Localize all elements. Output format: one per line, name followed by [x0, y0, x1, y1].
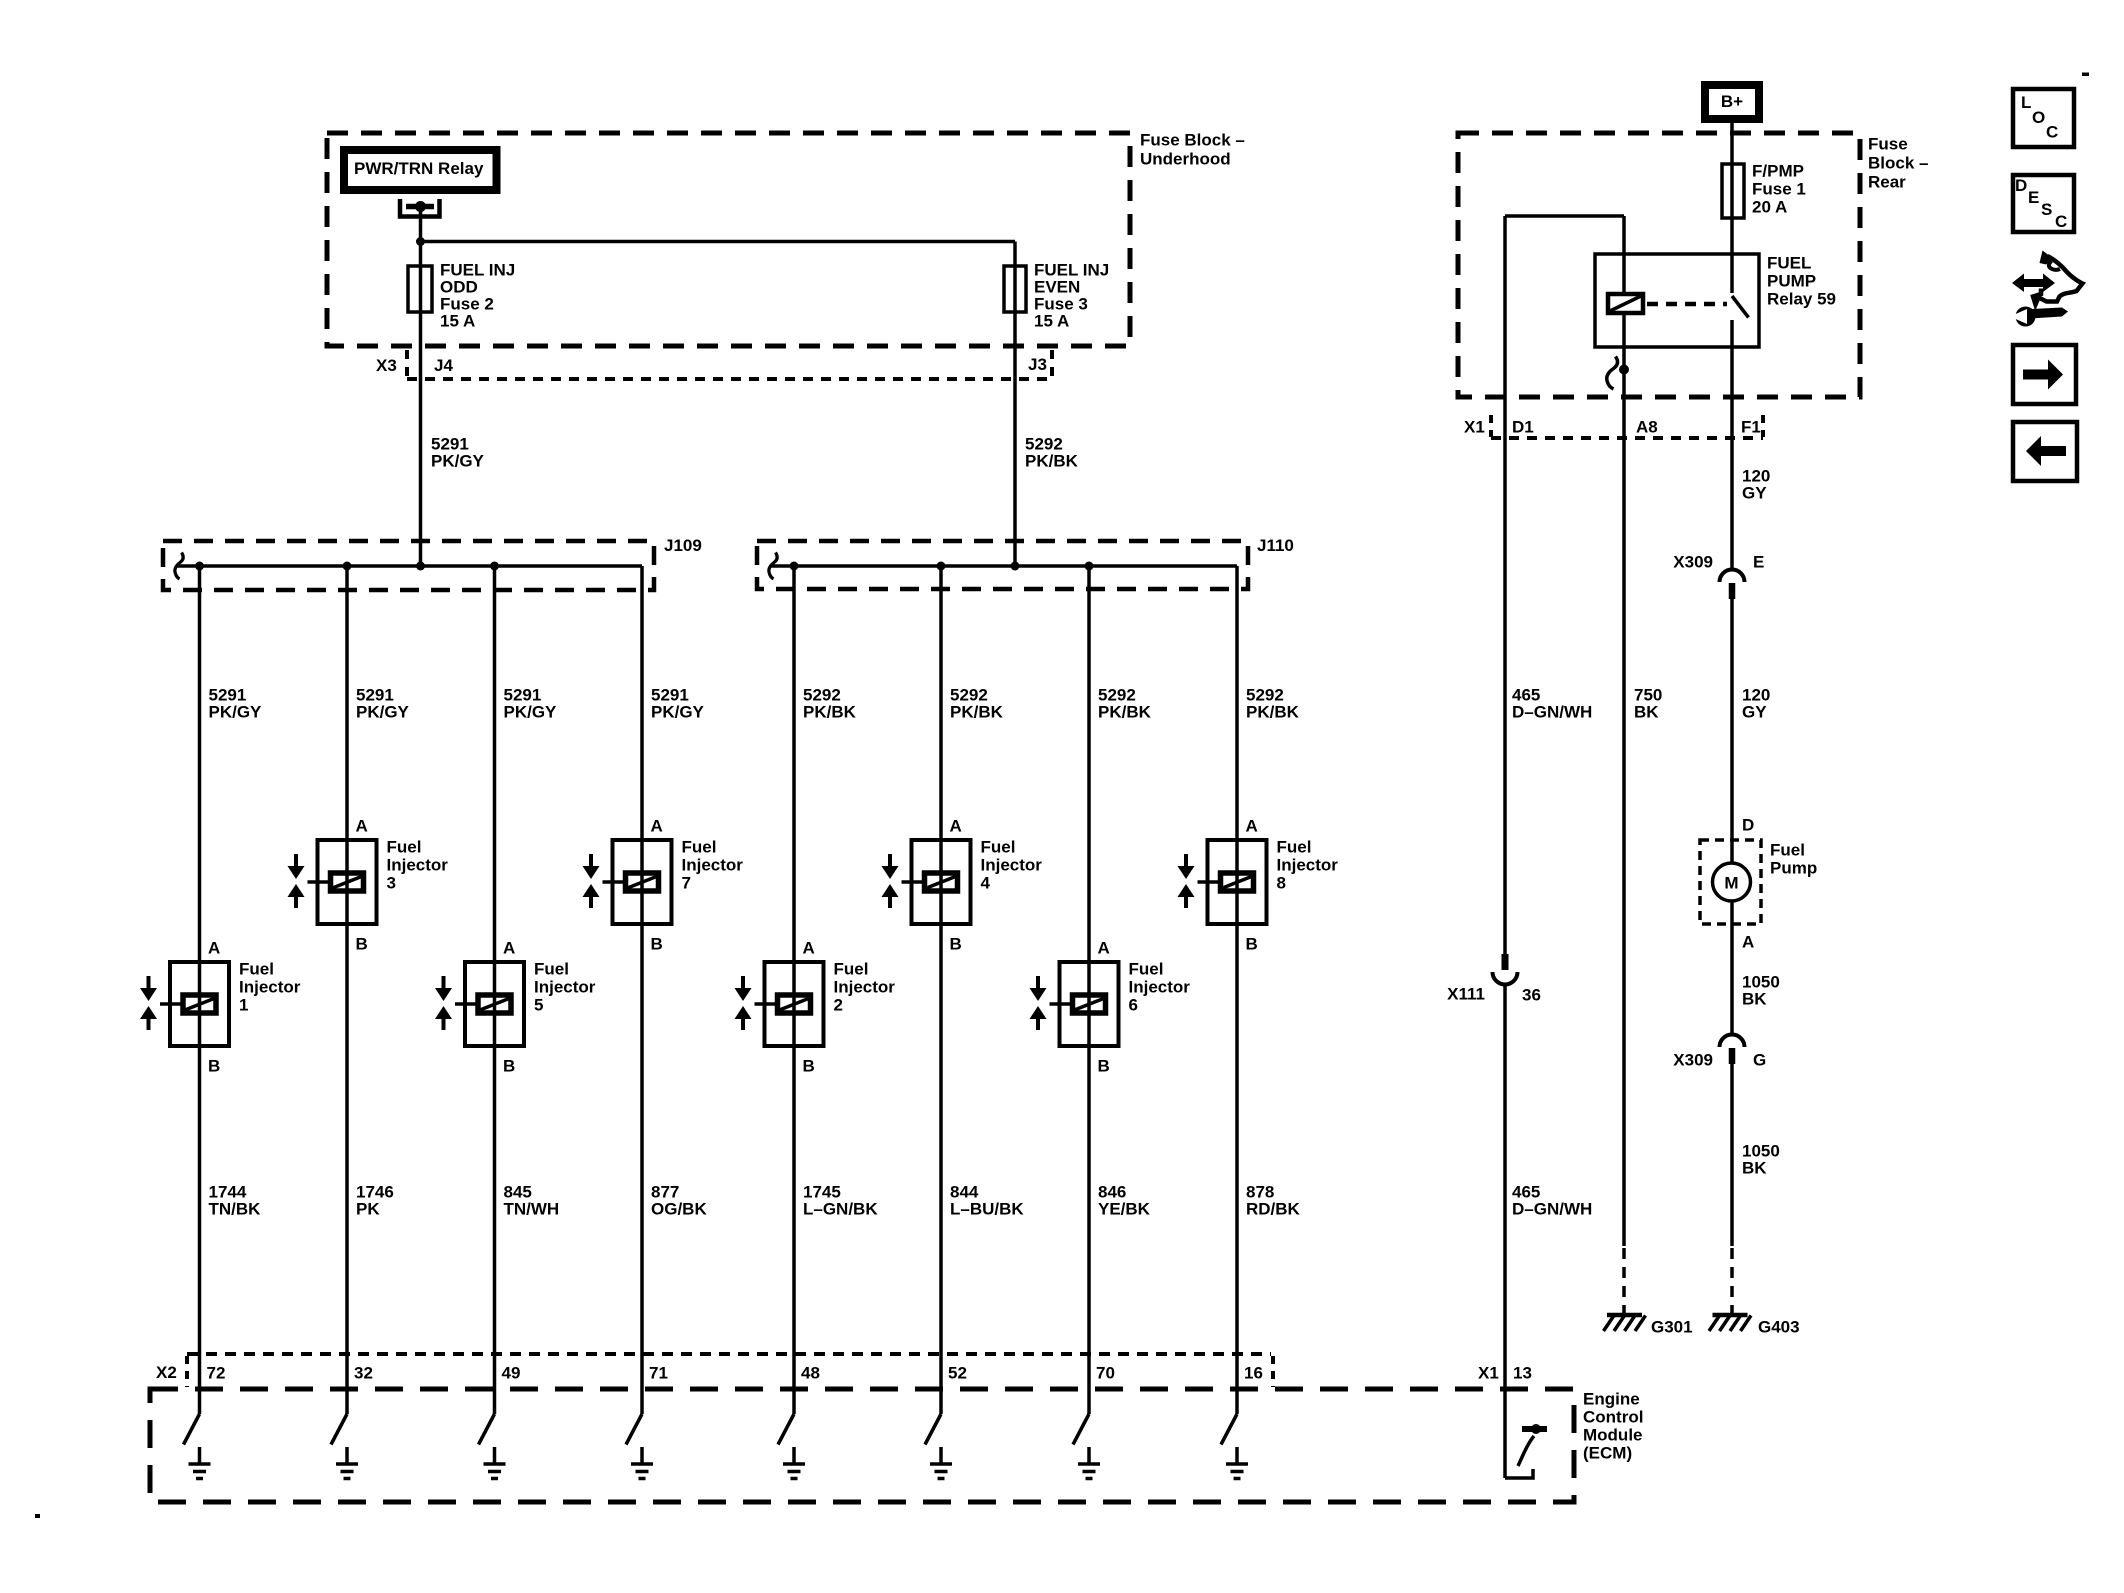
svg-text:70: 70 [1096, 1364, 1115, 1383]
wire 120 GY lower label [1742, 686, 1770, 722]
wire circuit 5292 PK/BK / 1745 L&#8211;GN/BK branch 5 [792, 566, 796, 1414]
switch ECM driver pin 52 [925, 1414, 941, 1445]
node J110 dots [790, 562, 1094, 571]
fuel pump label [1770, 841, 1817, 878]
injector fuel injector 5 [435, 962, 524, 1046]
svg-text:C: C [2046, 123, 2058, 142]
fuse F3 label [1034, 261, 1109, 331]
svg-text:5: 5 [534, 996, 543, 1015]
wire label 5291 PK/GY [356, 686, 410, 722]
svg-text:Fuel: Fuel [981, 838, 1016, 857]
injector fuel injector 4 [882, 840, 971, 924]
injector fuel injector 1 [140, 962, 229, 1046]
svg-text:L: L [2021, 93, 2031, 112]
svg-text:O: O [2032, 108, 2045, 127]
svg-text:E: E [2028, 188, 2039, 207]
pin D label pump [1742, 816, 1754, 835]
svg-text:B: B [503, 1057, 515, 1076]
svg-text:D–GN/WH: D–GN/WH [1512, 1200, 1592, 1219]
svg-text:A: A [803, 939, 815, 958]
relay 59 label [1767, 254, 1836, 309]
svg-text:J110: J110 [1257, 536, 1294, 555]
pin A label injector 1 [208, 939, 220, 958]
svg-text:36: 36 [1522, 986, 1541, 1005]
svg-text:Fuel: Fuel [534, 960, 569, 979]
svg-text:D1: D1 [1512, 418, 1534, 437]
pin X3 label [376, 356, 397, 375]
svg-text:Fuel: Fuel [1129, 960, 1164, 979]
pin 52 label [948, 1364, 967, 1383]
fuse block rear label [1868, 135, 1928, 192]
wire label 5291 PK/GY [209, 686, 263, 722]
wire 120 GY upper label [1742, 467, 1770, 503]
svg-text:B: B [1098, 1057, 1110, 1076]
svg-text:X3: X3 [376, 356, 397, 375]
switch ECM driver pin 32 [331, 1414, 347, 1445]
wire 5292 feed label [1025, 435, 1079, 471]
connector X309 pin E [1720, 570, 1745, 600]
svg-text:YE/BK: YE/BK [1098, 1200, 1151, 1219]
svg-text:X309: X309 [1673, 553, 1713, 572]
pin A label injector 2 [803, 939, 815, 958]
wire label 5292 PK/BK [1098, 686, 1152, 722]
svg-text:OG/BK: OG/BK [651, 1200, 707, 1219]
pin X309 E labels [1673, 553, 1764, 572]
svg-text:L–GN/BK: L–GN/BK [803, 1200, 878, 1219]
svg-text:Injector: Injector [239, 978, 301, 997]
svg-text:X1: X1 [1478, 1364, 1499, 1383]
wire junction down to fuse 2 [419, 242, 423, 267]
svg-text:GY: GY [1742, 484, 1767, 503]
connector J109 enclosure [163, 541, 654, 590]
wire label 5292 PK/BK [1246, 686, 1300, 722]
ground ECM internal pin 32 [336, 1447, 358, 1479]
wire label 878 RD/BK [1246, 1183, 1301, 1219]
svg-text:G301: G301 [1651, 1318, 1693, 1337]
svg-text:D: D [1742, 816, 1754, 835]
svg-text:PWR/TRN Relay: PWR/TRN Relay [354, 159, 484, 178]
ground ECM internal pin 48 [783, 1447, 805, 1479]
svg-text:Module: Module [1583, 1426, 1643, 1445]
svg-text:Block –: Block – [1868, 154, 1928, 173]
svg-text:8: 8 [1277, 874, 1286, 893]
injector 4 name label [981, 838, 1043, 893]
mark top right tick [2082, 73, 2089, 77]
pin B label injector 8 [1246, 935, 1258, 954]
wire J109 bus [176, 564, 642, 568]
svg-text:Rear: Rear [1868, 173, 1906, 192]
wire label 5292 PK/BK [803, 686, 857, 722]
svg-text:Injector: Injector [1129, 978, 1191, 997]
wire dashed to G403 [1730, 1248, 1734, 1313]
relay FUEL PUMP Relay 59 [1595, 254, 1759, 347]
switch ECM driver pin 16 [1221, 1414, 1237, 1445]
wire label 1745 L&#8211;GN/BK [803, 1183, 878, 1219]
svg-text:J3: J3 [1028, 355, 1047, 374]
pin A label injector 3 [356, 817, 368, 836]
wire J110 bus [770, 564, 1237, 568]
svg-text:Underhood: Underhood [1140, 150, 1231, 169]
svg-text:B: B [356, 935, 368, 954]
svg-text:BK: BK [1742, 990, 1767, 1009]
svg-text:L–BU/BK: L–BU/BK [950, 1200, 1024, 1219]
wire 465 D-GN/WH lower label [1512, 1183, 1592, 1219]
module ECM enclosure [150, 1389, 1574, 1502]
svg-text:X2: X2 [156, 1363, 177, 1382]
connector J110 enclosure [757, 541, 1248, 589]
mark bottom left tick [35, 1514, 40, 1518]
pin X1 label (ECM) [1478, 1364, 1499, 1383]
relay 59 link dashed [1647, 302, 1727, 307]
injector fuel injector 6 [1030, 962, 1119, 1046]
switch ECM driver pin 13 [1505, 1424, 1547, 1478]
svg-text:A: A [1246, 817, 1258, 836]
injector 5 name label [534, 960, 596, 1015]
svg-text:Injector: Injector [981, 856, 1043, 875]
svg-text:X309: X309 [1673, 1051, 1713, 1070]
svg-text:2: 2 [834, 996, 843, 1015]
wire PWR/TRN relay to junction [419, 207, 423, 242]
node junction feed split [416, 237, 425, 246]
svg-text:PK/BK: PK/BK [950, 703, 1004, 722]
wire label 845 TN/WH [504, 1183, 560, 1219]
svg-text:72: 72 [207, 1364, 226, 1383]
wire 465 D-GN/WH upper label [1512, 686, 1592, 722]
pin A label injector 7 [651, 817, 663, 836]
wire label 1746 PK [356, 1183, 394, 1219]
wire X309 E to pump [1730, 599, 1734, 863]
svg-text:A: A [356, 817, 368, 836]
svg-text:J4: J4 [434, 356, 453, 375]
injector 7 name label [682, 838, 744, 893]
wire 5292 fuse3 to J110 [1013, 312, 1017, 566]
pin 13 label [1513, 1364, 1532, 1383]
svg-text:B: B [803, 1057, 815, 1076]
wire circuit 5292 PK/BK / 846 YE/BK branch 7 [1087, 566, 1091, 1414]
wire circuit 5292 PK/BK / 878 RD/BK branch 8 [1235, 566, 1239, 1414]
wire relay coil feed from D1 [1505, 216, 1624, 294]
svg-text:F/PMP: F/PMP [1752, 162, 1804, 181]
pin F1 label [1741, 418, 1761, 437]
pin X111 36 labels [1447, 985, 1541, 1005]
pin A label injector 4 [950, 817, 962, 836]
injector fuel injector 2 [735, 962, 824, 1046]
splice coil/A8 with hook [1607, 357, 1629, 390]
pin D1 label [1512, 418, 1534, 437]
svg-text:GY: GY [1742, 703, 1767, 722]
ground ECM internal pin 49 [484, 1447, 506, 1479]
wire 5291 fuse2 to J109 [419, 312, 423, 566]
svg-text:F1: F1 [1741, 418, 1761, 437]
svg-text:Control: Control [1583, 1408, 1643, 1427]
pump fuel pump motor [1700, 840, 1761, 924]
svg-text:B: B [1246, 935, 1258, 954]
wire 1050 BK upper label [1742, 973, 1780, 1009]
wire circuit 5291 PK/GY / 1744 TN/BK branch 1 [198, 566, 202, 1414]
svg-text:Fuel: Fuel [834, 960, 869, 979]
wire label 877 OG/BK [651, 1183, 707, 1219]
pin J3 label [1028, 355, 1047, 374]
wire circuit 5291 PK/GY / 1746 PK branch 2 [345, 566, 349, 1414]
fuse F2 FUEL INJ ODD 15A [408, 266, 432, 312]
svg-text:G403: G403 [1758, 1318, 1800, 1337]
injector fuel injector 3 [288, 840, 377, 924]
svg-text:(ECM): (ECM) [1583, 1444, 1632, 1463]
fuse block underhood label [1140, 131, 1245, 169]
svg-text:A: A [1742, 933, 1754, 952]
connector strip X1 D1 A8 F1 [1491, 415, 1763, 438]
pin X309 G labels [1673, 1051, 1766, 1070]
svg-text:A: A [208, 939, 220, 958]
injector 2 name label [834, 960, 896, 1015]
injector fuel injector 7 [583, 840, 672, 924]
pin B label injector 7 [651, 935, 663, 954]
pin X1 label [1464, 418, 1485, 437]
svg-text:48: 48 [801, 1364, 820, 1383]
ground ECM internal pin 72 [189, 1447, 211, 1479]
svg-text:13: 13 [1513, 1364, 1532, 1383]
pin 32 label [354, 1364, 373, 1383]
node J109 dots [195, 562, 499, 571]
wire label 846 YE/BK [1098, 1183, 1151, 1219]
svg-text:C: C [2055, 212, 2067, 231]
wire B+ to fuse [1730, 123, 1734, 293]
injector 3 name label [387, 838, 449, 893]
fuse F3 FUEL INJ EVEN 15A [1004, 266, 1026, 312]
wire circuit 5291 PK/GY / 845 TN/WH branch 3 [493, 566, 497, 1414]
switch ECM driver pin 71 [626, 1414, 642, 1445]
wire circuit 5291 PK/GY / 877 OG/BK branch 4 [640, 566, 644, 1414]
ground ECM internal pin 16 [1226, 1447, 1248, 1479]
svg-text:PK: PK [356, 1200, 380, 1219]
svg-text:Fuse: Fuse [1868, 135, 1908, 154]
wire dashed to G301 [1622, 1248, 1626, 1313]
switch ECM driver pin 48 [778, 1414, 794, 1445]
injector 8 name label [1277, 838, 1339, 893]
pin 72 label [207, 1364, 226, 1383]
relay 59 coil [1608, 294, 1643, 313]
svg-text:Engine: Engine [1583, 1390, 1640, 1409]
relay 59 switch arm [1732, 296, 1749, 318]
splice hook J110 [769, 553, 777, 580]
svg-text:15 A: 15 A [1034, 312, 1069, 331]
svg-text:Fuel: Fuel [682, 838, 717, 857]
ground ECM internal pin 71 [631, 1447, 653, 1479]
ground G301 [1604, 1315, 1646, 1331]
svg-text:PUMP: PUMP [1767, 272, 1816, 291]
svg-text:52: 52 [948, 1364, 967, 1383]
wire 750 BK label [1634, 686, 1662, 722]
svg-text:BK: BK [1742, 1159, 1767, 1178]
module ECM label [1583, 1390, 1643, 1463]
svg-text:Injector: Injector [534, 978, 596, 997]
svg-text:A: A [1098, 939, 1110, 958]
pin 16 label [1244, 1364, 1263, 1383]
svg-text:E: E [1753, 553, 1764, 572]
svg-text:D–GN/WH: D–GN/WH [1512, 703, 1592, 722]
svg-text:PK/GY: PK/GY [209, 703, 263, 722]
svg-text:4: 4 [981, 874, 991, 893]
svg-text:Fuel: Fuel [1277, 838, 1312, 857]
svg-text:TN/BK: TN/BK [209, 1200, 262, 1219]
pin A8 label [1636, 418, 1658, 437]
wire junction to fuse 3 branch [421, 242, 1016, 267]
wire pump to X309 G [1730, 901, 1734, 1034]
fuse block rear enclosure [1458, 133, 1860, 397]
svg-text:Fuel: Fuel [1770, 841, 1805, 860]
splice hook J109 [175, 553, 183, 580]
icon vehicle service (arrow, outline, wrench) [2010, 251, 2083, 327]
pin 49 label [502, 1364, 521, 1383]
svg-text:S: S [2041, 200, 2052, 219]
svg-text:B: B [651, 935, 663, 954]
svg-text:20 A: 20 A [1752, 198, 1787, 217]
pin 48 label [801, 1364, 820, 1383]
injector 1 name label [239, 960, 301, 1015]
svg-text:Fuel: Fuel [387, 838, 422, 857]
icon DESC [2013, 175, 2074, 232]
fuse F/PMP Fuse 1 20A [1722, 164, 1744, 218]
ground G403 label [1758, 1318, 1800, 1337]
pin B label injector 4 [950, 935, 962, 954]
connector X309 pin G [1720, 1034, 1745, 1064]
svg-text:3: 3 [387, 874, 396, 893]
svg-text:16: 16 [1244, 1364, 1263, 1383]
svg-text:Relay 59: Relay 59 [1767, 290, 1836, 309]
svg-text:A: A [651, 817, 663, 836]
fuse F2 label [440, 261, 515, 331]
wire X111 down to ECM pin 13 [1503, 985, 1507, 1478]
pin B label injector 6 [1098, 1057, 1110, 1076]
injector fuel injector 8 [1178, 840, 1267, 924]
svg-text:A8: A8 [1636, 418, 1658, 437]
svg-text:PK/BK: PK/BK [1246, 703, 1300, 722]
svg-text:Injector: Injector [387, 856, 449, 875]
svg-text:Injector: Injector [1277, 856, 1339, 875]
svg-text:Injector: Injector [682, 856, 744, 875]
pin B label injector 5 [503, 1057, 515, 1076]
svg-text:71: 71 [649, 1364, 668, 1383]
svg-text:X1: X1 [1464, 418, 1485, 437]
svg-text:X111: X111 [1447, 985, 1485, 1004]
pin B label injector 3 [356, 935, 368, 954]
wire 1050 BK lower label [1742, 1142, 1780, 1178]
wire relay coil to A8 [1622, 313, 1626, 1246]
svg-text:A: A [950, 817, 962, 836]
wire D1 down [1503, 216, 1507, 954]
svg-text:TN/WH: TN/WH [504, 1200, 560, 1219]
connector X111 pin 36 [1493, 954, 1518, 984]
pin A label injector 6 [1098, 939, 1110, 958]
fuse block underhood enclosure [327, 133, 1130, 346]
svg-text:PK/GY: PK/GY [504, 703, 558, 722]
wire label 1744 TN/BK [209, 1183, 262, 1219]
svg-text:Fuel: Fuel [239, 960, 274, 979]
svg-text:Injector: Injector [834, 978, 896, 997]
svg-text:49: 49 [502, 1364, 521, 1383]
svg-text:PK/GY: PK/GY [431, 452, 485, 471]
wire 5291 feed label [431, 435, 485, 471]
wire circuit 5292 PK/BK / 844 L&#8211;BU/BK branch 6 [939, 566, 943, 1414]
svg-text:Fuse Block –: Fuse Block – [1140, 131, 1245, 150]
svg-text:Fuse 1: Fuse 1 [1752, 180, 1806, 199]
ground G403 [1709, 1315, 1751, 1331]
svg-text:M: M [1724, 874, 1738, 893]
wire relay switch down [1730, 320, 1734, 569]
svg-text:J109: J109 [664, 536, 702, 555]
svg-text:G: G [1753, 1051, 1766, 1070]
PWR/TRN relay contact terminal symbol [400, 199, 440, 217]
svg-text:PK/BK: PK/BK [1098, 703, 1152, 722]
ground ECM internal pin 52 [930, 1447, 952, 1479]
pin 71 label [649, 1364, 668, 1383]
svg-text:D: D [2015, 176, 2027, 195]
power B+ [1705, 85, 1759, 119]
switch ECM driver pin 49 [479, 1414, 495, 1445]
connector J110 label [1257, 536, 1294, 555]
relay PWR/TRN Relay [344, 150, 497, 190]
icon arrow back [2013, 422, 2077, 481]
wire label 5292 PK/BK [950, 686, 1004, 722]
svg-text:B: B [950, 935, 962, 954]
svg-text:PK/GY: PK/GY [356, 703, 410, 722]
wire label 844 L&#8211;BU/BK [950, 1183, 1024, 1219]
svg-text:15 A: 15 A [440, 312, 475, 331]
connector strip X2 [187, 1354, 1273, 1387]
pin A label pump [1742, 933, 1754, 952]
pin X2 label [156, 1363, 177, 1382]
fuse F/PMP label [1752, 162, 1806, 217]
connector J109 label [664, 536, 702, 555]
icon LOC [2013, 89, 2074, 147]
wire X309 G down [1730, 1064, 1734, 1246]
switch ECM driver pin 70 [1073, 1414, 1089, 1445]
pin J4 label [434, 356, 453, 375]
svg-text:PK/BK: PK/BK [1025, 452, 1079, 471]
wire label 5291 PK/GY [504, 686, 558, 722]
wire label 5291 PK/GY [651, 686, 705, 722]
ground ECM internal pin 70 [1078, 1447, 1100, 1479]
svg-text:FUEL: FUEL [1767, 254, 1811, 273]
svg-text:Pump: Pump [1770, 859, 1817, 878]
svg-text:RD/BK: RD/BK [1246, 1200, 1301, 1219]
svg-text:PK/GY: PK/GY [651, 703, 705, 722]
svg-text:BK: BK [1634, 703, 1659, 722]
ground G301 label [1651, 1318, 1693, 1337]
svg-text:PK/BK: PK/BK [803, 703, 857, 722]
pin 70 label [1096, 1364, 1115, 1383]
svg-text:7: 7 [682, 874, 691, 893]
svg-text:32: 32 [354, 1364, 373, 1383]
svg-text:1: 1 [239, 996, 248, 1015]
pin B label injector 1 [208, 1057, 220, 1076]
svg-text:B: B [208, 1057, 220, 1076]
pin B label injector 2 [803, 1057, 815, 1076]
pin A label injector 5 [503, 939, 515, 958]
injector 6 name label [1129, 960, 1191, 1015]
pin A label injector 8 [1246, 817, 1258, 836]
svg-text:A: A [503, 939, 515, 958]
svg-text:6: 6 [1129, 996, 1138, 1015]
switch ECM driver pin 72 [184, 1414, 200, 1445]
connector strip X3 J4 J3 [407, 350, 1052, 379]
icon arrow next [2013, 345, 2076, 404]
svg-text:B+: B+ [1721, 92, 1743, 111]
